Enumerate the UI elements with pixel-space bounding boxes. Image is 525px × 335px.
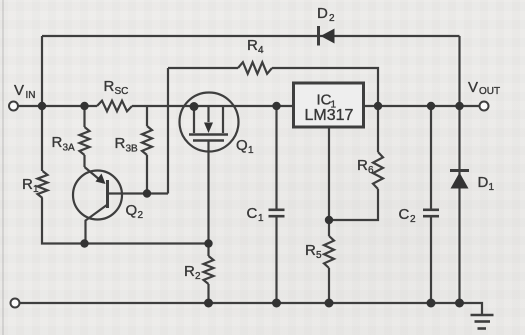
svg-text:R: R — [184, 263, 195, 280]
svg-text:3A: 3A — [63, 143, 76, 154]
svg-text:R: R — [104, 78, 115, 95]
svg-text:4: 4 — [258, 45, 264, 56]
svg-text:R: R — [357, 157, 368, 174]
svg-text:6: 6 — [368, 165, 374, 176]
svg-text:SC: SC — [115, 86, 129, 97]
svg-text:C: C — [399, 206, 410, 223]
svg-text:1: 1 — [489, 182, 495, 193]
svg-text:1: 1 — [33, 184, 39, 195]
svg-text:2: 2 — [410, 214, 416, 225]
svg-text:V: V — [14, 82, 24, 99]
svg-text:2: 2 — [138, 210, 144, 221]
svg-text:1: 1 — [248, 145, 254, 156]
svg-text:OUT: OUT — [479, 86, 500, 97]
svg-text:5: 5 — [316, 250, 322, 261]
svg-text:R: R — [22, 176, 33, 193]
svg-text:LM317: LM317 — [305, 107, 354, 124]
svg-text:D: D — [478, 174, 489, 191]
svg-text:2: 2 — [195, 271, 201, 282]
svg-text:R: R — [247, 37, 258, 54]
svg-text:D: D — [317, 5, 328, 22]
svg-text:R: R — [305, 242, 316, 259]
svg-text:V: V — [468, 79, 478, 96]
svg-text:1: 1 — [258, 213, 264, 224]
svg-text:Q: Q — [236, 137, 248, 154]
svg-text:IN: IN — [26, 90, 36, 101]
svg-text:C: C — [247, 205, 258, 222]
svg-text:R: R — [115, 135, 126, 152]
svg-text:R: R — [52, 134, 63, 151]
svg-text:2: 2 — [329, 13, 335, 24]
svg-text:3B: 3B — [126, 144, 139, 155]
svg-text:IC: IC — [317, 92, 332, 109]
svg-text:Q: Q — [126, 202, 138, 219]
